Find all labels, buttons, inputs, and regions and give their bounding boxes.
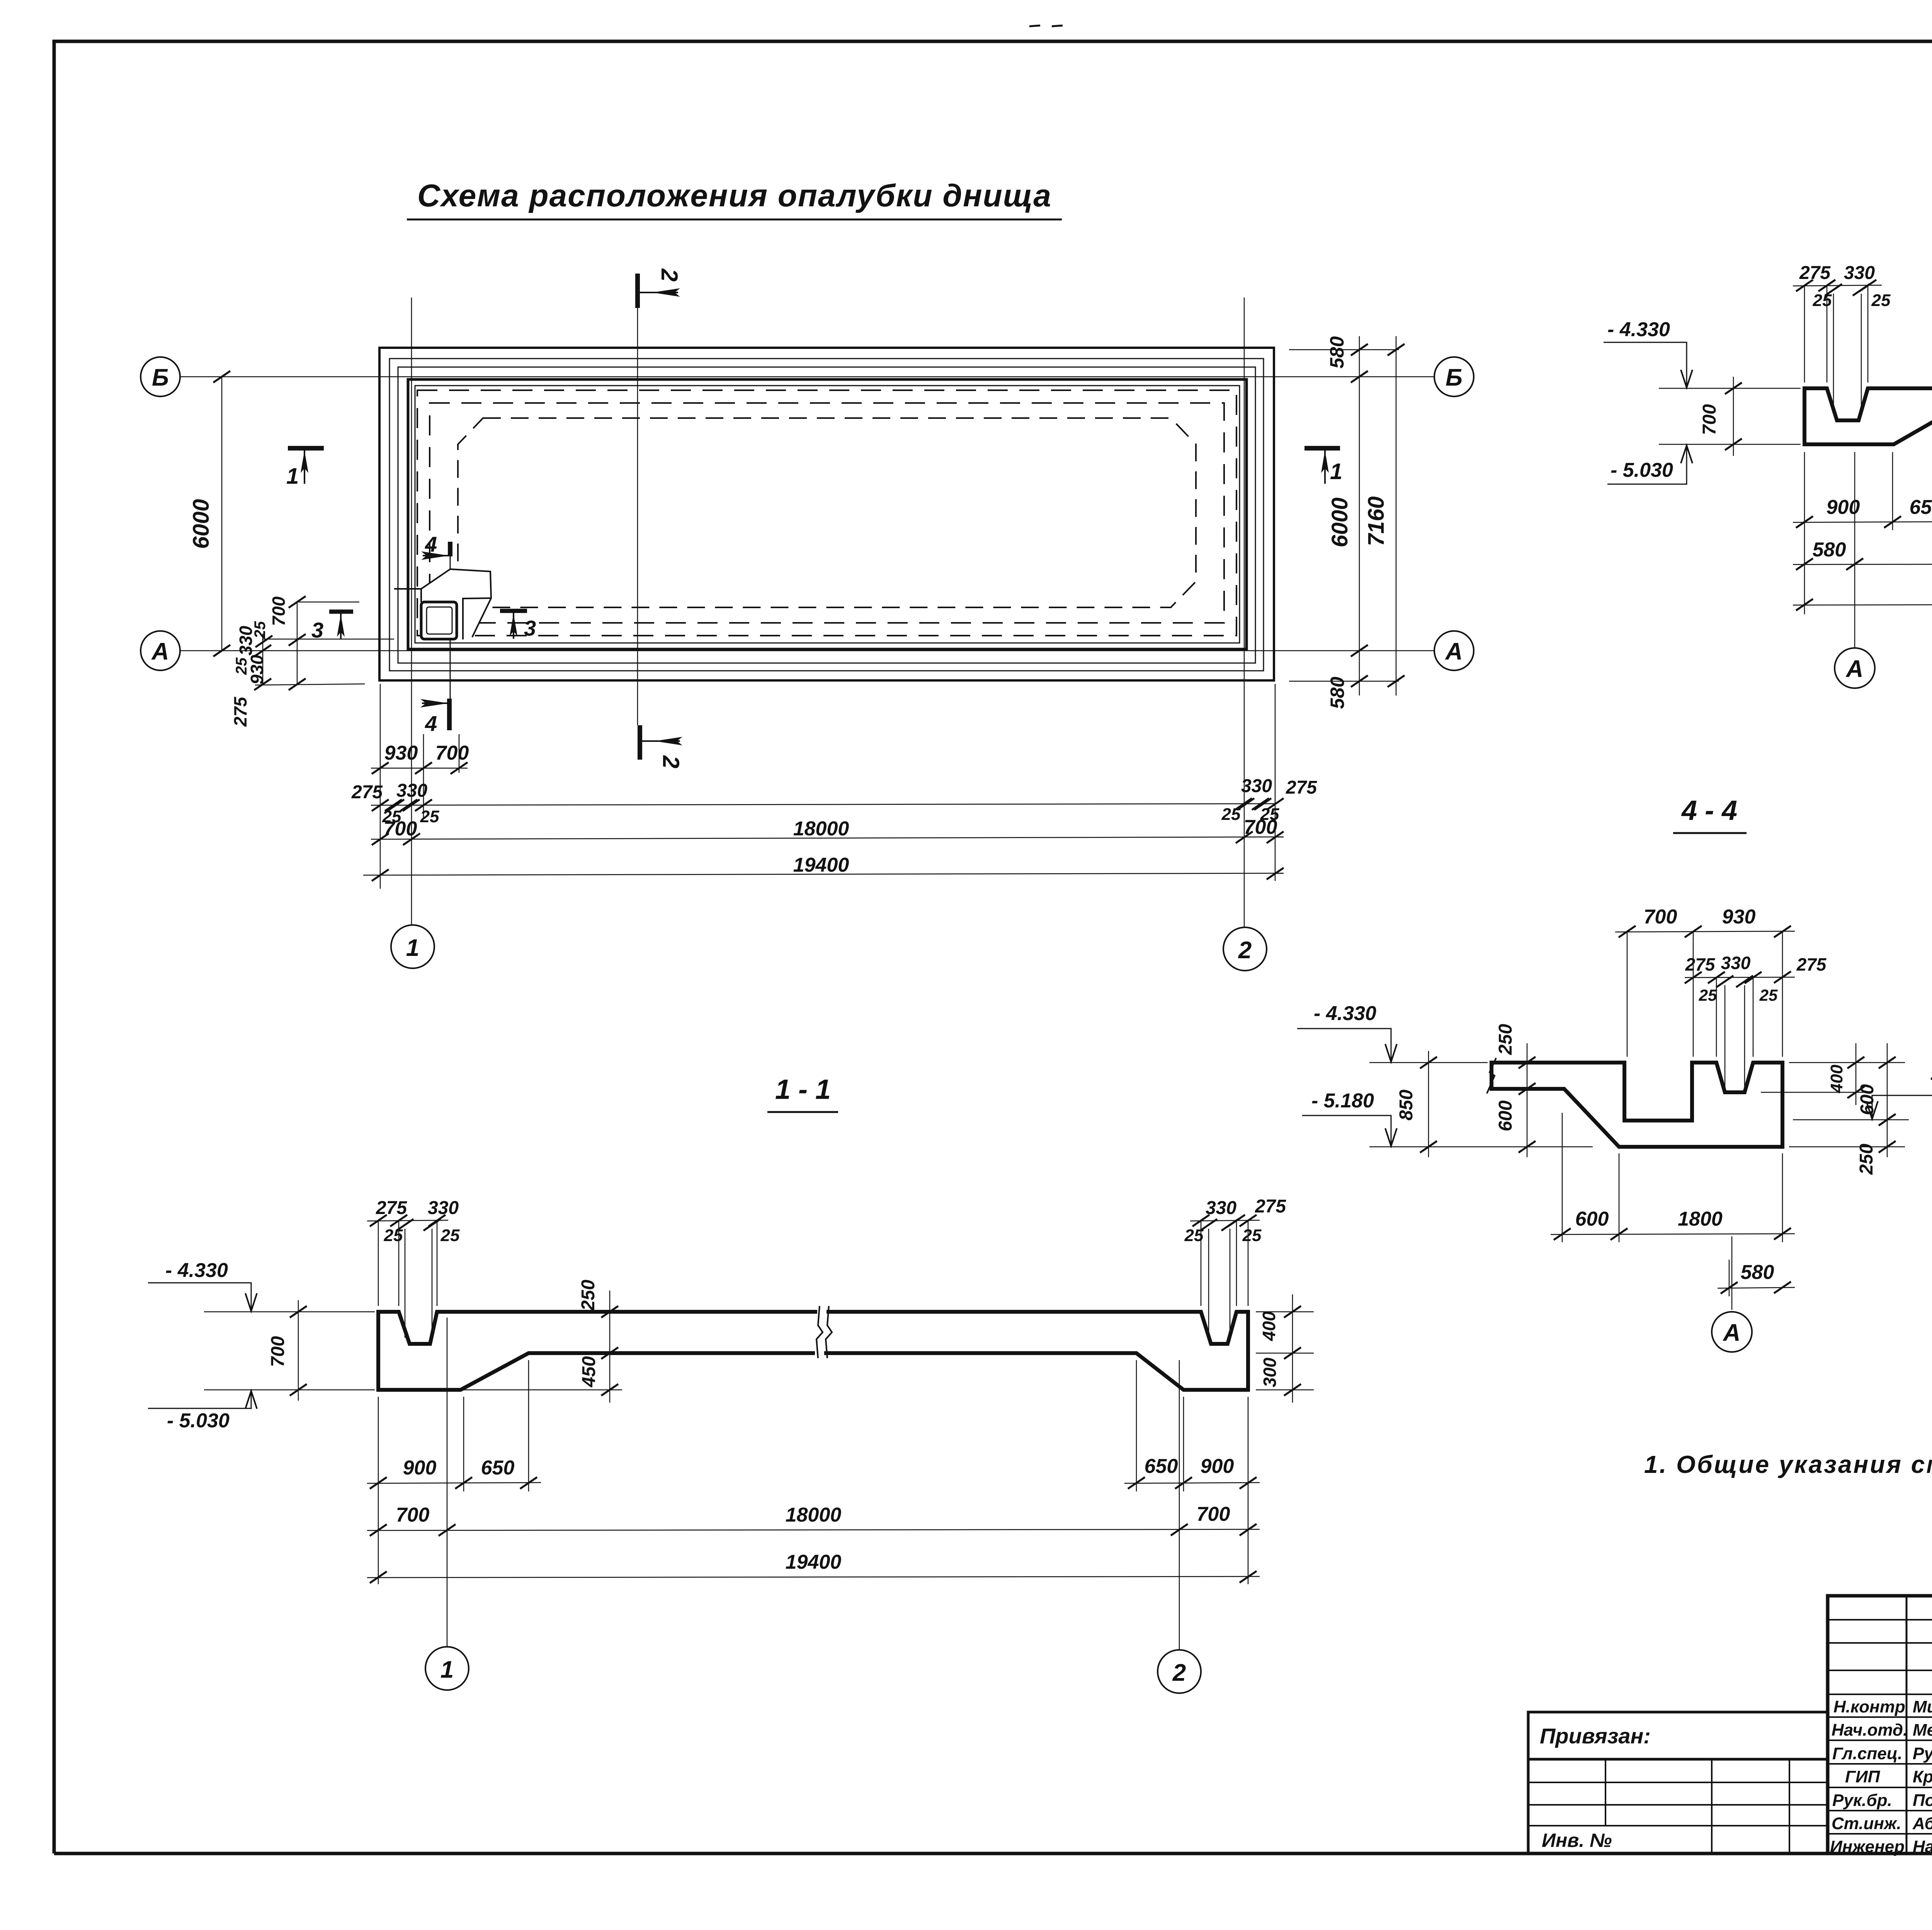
- svg-text:300: 300: [1260, 1357, 1280, 1387]
- svg-text:А: А: [1845, 656, 1864, 682]
- svg-text:4 - 4: 4 - 4: [1681, 795, 1737, 826]
- svg-text:3: 3: [524, 616, 536, 640]
- svg-text:Инв. №: Инв. №: [1542, 1830, 1612, 1851]
- svg-text:3: 3: [311, 618, 323, 642]
- svg-text:Привязан:: Привязан:: [1540, 1724, 1651, 1748]
- left dim 6000 line: [213, 371, 230, 656]
- axis vertical line 2: [1244, 298, 1245, 927]
- section 2 cut line (vertical through plan): [637, 307, 638, 725]
- title block outer border: [1828, 1596, 1932, 1853]
- 4-4 left extension lines + dim 850: [1369, 1051, 1593, 1157]
- svg-text:900: 900: [1201, 1455, 1234, 1478]
- 4-4 level mark -5.180: [1302, 1090, 1397, 1146]
- plan inner thin rectangle: [415, 386, 1240, 643]
- axis circle Б right: [1434, 357, 1474, 396]
- signature table texts: [1830, 1697, 1932, 1856]
- svg-text:25: 25: [1184, 1226, 1204, 1245]
- left wall chain dim line and ticks: [254, 596, 394, 690]
- axis circle 1 (plan): [391, 925, 434, 968]
- svg-text:900: 900: [403, 1457, 437, 1479]
- svg-text:4: 4: [425, 532, 437, 556]
- 1-1 right side dims 400/300: [1256, 1294, 1314, 1403]
- svg-text:- 4.330: - 4.330: [165, 1259, 228, 1282]
- svg-text:Б: Б: [1446, 364, 1463, 391]
- 4-4 top dim row 700/930: [1615, 926, 1795, 1057]
- svg-text:1: 1: [406, 935, 419, 961]
- svg-text:1800: 1800: [1678, 1208, 1723, 1230]
- section mark 4 bottom: bar: [447, 699, 452, 730]
- 2-2 level mark -5.030: [1607, 446, 1692, 484]
- 2-2 level mark -4.330: [1604, 318, 1692, 388]
- svg-text:А: А: [1445, 638, 1463, 665]
- svg-text:2: 2: [1238, 937, 1252, 964]
- section mark 3 right: arrow: [510, 612, 517, 639]
- svg-text:930: 930: [247, 655, 267, 684]
- svg-text:275: 275: [376, 1198, 407, 1218]
- svg-text:650: 650: [1910, 496, 1932, 519]
- svg-text:1: 1: [1330, 459, 1342, 484]
- section mark 3 left: bar: [329, 610, 353, 614]
- section mark 4 bottom: arrow: [420, 699, 448, 707]
- section 4 cut line bottom: [450, 639, 451, 700]
- svg-text:450: 450: [579, 1356, 599, 1388]
- svg-text:275: 275: [1255, 1196, 1286, 1217]
- svg-text:Мешалкин: Мешалкин: [1913, 1721, 1932, 1740]
- svg-text:850: 850: [1396, 1090, 1417, 1121]
- 1-1 axis circle 1: [425, 1647, 469, 1690]
- title block signature table rows: [1828, 1620, 1932, 1834]
- svg-text:275: 275: [1796, 954, 1827, 974]
- section 1-1 break symbol: [816, 1306, 832, 1358]
- 4-4 dim row 580: [1718, 1260, 1795, 1296]
- svg-text:580: 580: [1741, 1261, 1774, 1284]
- svg-text:580: 580: [1326, 336, 1348, 369]
- section mark 1 right: bar: [1304, 446, 1340, 451]
- section mark 4 top: bar: [448, 542, 452, 556]
- 2-2 dim row 7160: [1793, 598, 1932, 610]
- bottom row D dim line 19400: [363, 868, 1284, 881]
- bottom row C dim line 700/18000/700: [371, 832, 1284, 845]
- 1-1 axis verticals: [447, 1318, 1179, 1649]
- plan inner thick formwork rectangle: [408, 379, 1247, 649]
- 1-1 groove extension lines right: [1190, 1215, 1260, 1338]
- section 4-4 title: [1673, 795, 1747, 833]
- svg-text:19400: 19400: [793, 854, 849, 876]
- svg-text:ГИП: ГИП: [1845, 1767, 1881, 1786]
- section 4-4 break symbol left: [1487, 1058, 1496, 1093]
- svg-text:580: 580: [1813, 539, 1846, 561]
- 4-4 groove dim row 275/330/275: [1685, 971, 1795, 1088]
- svg-text:А: А: [151, 638, 169, 665]
- svg-text:1: 1: [440, 1656, 454, 1683]
- svg-text:330: 330: [1721, 953, 1751, 973]
- axis line Б horizontal: [180, 376, 1434, 377]
- svg-text:25: 25: [420, 807, 439, 826]
- section 1-1 title: [767, 1074, 838, 1112]
- svg-text:- 5.030: - 5.030: [167, 1410, 230, 1432]
- axis circle 2 (plan): [1223, 927, 1267, 971]
- svg-text:Нач.отд.: Нач.отд.: [1832, 1721, 1908, 1740]
- 4-4 level mark -4.930: [1793, 1066, 1932, 1120]
- bottom row B left: 275 330 + 25 25: [371, 799, 1275, 811]
- svg-text:Рук.бр.: Рук.бр.: [1832, 1791, 1892, 1810]
- svg-text:580: 580: [1327, 677, 1348, 709]
- svg-text:1. Общие указания см лист: 1. Общие указания см листы 1 ÷ 7.: [1644, 1450, 1932, 1478]
- svg-text:650: 650: [1145, 1455, 1178, 1478]
- svg-text:Крюков: Крюков: [1913, 1767, 1932, 1786]
- section 4-4 profile outline: [1492, 1063, 1782, 1147]
- section 1-1 profile outline left part: [378, 1312, 817, 1390]
- svg-text:18000: 18000: [793, 818, 849, 840]
- svg-text:930: 930: [1722, 906, 1756, 928]
- 2-2 groove extension lines left: [1793, 280, 1882, 413]
- main title: Схема расположения опалубки днища: [407, 26, 1063, 219]
- svg-text:25: 25: [1699, 986, 1717, 1004]
- svg-text:700: 700: [435, 742, 469, 764]
- section mark 3 left: arrow: [337, 613, 345, 639]
- svg-text:275: 275: [1799, 263, 1831, 283]
- svg-text:25: 25: [1221, 805, 1241, 824]
- svg-text:Н.контр: Н.контр: [1833, 1697, 1905, 1716]
- svg-text:- 5.030: - 5.030: [1611, 459, 1673, 481]
- section mark 2 bottom: bar: [638, 725, 642, 760]
- svg-text:2: 2: [656, 268, 682, 281]
- svg-text:6000: 6000: [1327, 497, 1352, 547]
- 1-1 dim row 19400: [367, 1571, 1260, 1583]
- svg-text:700: 700: [396, 1504, 430, 1526]
- 1-1 bottom dim row 900/650 left: [367, 1360, 541, 1584]
- svg-text:250: 250: [1495, 1024, 1516, 1055]
- bottom row B right ticks: [1235, 684, 1284, 881]
- svg-text:7160: 7160: [1364, 496, 1389, 546]
- 1-1 left extension lines + dim 700: [204, 1300, 375, 1401]
- section mark 1 left: bar: [288, 446, 324, 451]
- svg-text:650: 650: [481, 1457, 515, 1479]
- svg-text:330: 330: [396, 781, 427, 801]
- 2-2 bottom dim row 900/650 left: [1793, 419, 1932, 614]
- dashed rectangle B: [430, 403, 1224, 623]
- svg-text:Схема расположения опалубки: Схема расположения опалубки днища: [417, 178, 1051, 213]
- svg-text:330: 330: [236, 626, 256, 655]
- 1-1 mid dims 250/450: [461, 1291, 622, 1403]
- pit plan: outer square: [421, 602, 457, 639]
- svg-text:600: 600: [1495, 1100, 1516, 1131]
- svg-text:330: 330: [428, 1198, 459, 1218]
- svg-text:4: 4: [425, 711, 437, 736]
- plan wall line 2: [389, 359, 1264, 671]
- svg-text:700: 700: [1244, 816, 1277, 838]
- axis circle Б left: [141, 357, 180, 396]
- svg-text:1: 1: [286, 464, 299, 489]
- pit plan: inner square: [427, 607, 452, 634]
- svg-text:400: 400: [1259, 1311, 1279, 1341]
- 2-2 dim row 580/6000/580: [1793, 558, 1932, 570]
- right dim chain: 580 top: [1289, 336, 1405, 695]
- section 4 cut line top: [450, 555, 451, 569]
- 4-4 axis vertical: [1731, 1236, 1733, 1310]
- svg-text:Б: Б: [152, 364, 169, 391]
- 1-1 level mark -4.330: [148, 1259, 257, 1311]
- svg-text:700: 700: [1197, 1503, 1230, 1525]
- svg-text:600: 600: [1857, 1084, 1878, 1115]
- section 2-2 profile outline: [1804, 388, 1932, 444]
- 4-4 level mark -4.330: [1297, 1002, 1397, 1062]
- 2-2 axis verticals: [1855, 452, 1932, 648]
- section mark 2 top: arrow line: [638, 288, 680, 297]
- svg-text:25: 25: [440, 1226, 460, 1245]
- 4-4 axis circle А: [1712, 1312, 1752, 1352]
- svg-text:18000: 18000: [786, 1504, 842, 1526]
- svg-text:700: 700: [1644, 906, 1677, 928]
- svg-text:Инженер: Инженер: [1830, 1837, 1905, 1856]
- plan wall line 3: [398, 367, 1255, 663]
- svg-text:700: 700: [268, 1336, 288, 1367]
- svg-text:Гл.спец.: Гл.спец.: [1832, 1744, 1902, 1763]
- 1-1 axis circle 2: [1158, 1650, 1201, 1693]
- 2-2 axis circle А: [1835, 648, 1875, 688]
- svg-text:- 4.330: - 4.330: [1607, 318, 1670, 341]
- svg-text:- 4.330: - 4.330: [1314, 1002, 1376, 1025]
- svg-text:275: 275: [1286, 777, 1317, 798]
- svg-text:А: А: [1723, 1320, 1741, 1346]
- svg-text:25: 25: [384, 1226, 403, 1245]
- section mark 1 left: arrow: [301, 449, 308, 484]
- svg-text:275: 275: [351, 782, 383, 803]
- section mark 2 top: bar: [635, 274, 640, 308]
- section mark 3 right: bar: [500, 609, 527, 613]
- svg-text:700: 700: [384, 818, 417, 840]
- section 1-1 profile outline right part: [824, 1312, 1248, 1390]
- axis circle А left: [141, 631, 180, 670]
- title block signature table columns: [1906, 1596, 1932, 1853]
- 1-1 level mark -5.030: [148, 1391, 257, 1432]
- svg-text:2: 2: [658, 755, 684, 768]
- axis circle А right: [1434, 631, 1474, 670]
- svg-text:400: 400: [1827, 1064, 1846, 1093]
- axis line А horizontal: [180, 650, 1434, 651]
- svg-text:Попов: Попов: [1913, 1791, 1932, 1810]
- svg-text:250: 250: [1856, 1144, 1877, 1175]
- section mark 4 top: arrow: [421, 551, 449, 560]
- 4-4 dims 250/600 left: [1519, 1043, 1536, 1157]
- svg-text:930: 930: [384, 742, 418, 764]
- 4-4 right dims 400/600/250: [1761, 1043, 1905, 1157]
- svg-text:600: 600: [1575, 1208, 1609, 1230]
- bottom row A dim line 930/700: [371, 684, 468, 889]
- svg-text:Ст.инж.: Ст.инж.: [1832, 1814, 1901, 1833]
- dashed rectangle A (formwork bottom edge): [417, 390, 1236, 636]
- Привязан box: [1528, 1712, 1828, 1853]
- svg-text:- 4.930: - 4.930: [1930, 1066, 1932, 1088]
- 1-1 bottom dim row 650/900 right: [1124, 1360, 1260, 1584]
- svg-text:Руссин: Руссин: [1913, 1744, 1932, 1763]
- 4-4 bottom dim row 600/1800: [1551, 1113, 1795, 1242]
- svg-text:700: 700: [269, 596, 289, 626]
- svg-text:275: 275: [230, 696, 250, 727]
- svg-text:- 5.180: - 5.180: [1311, 1090, 1374, 1112]
- section mark 1 right: arrow: [1321, 449, 1329, 484]
- svg-text:250: 250: [578, 1280, 599, 1311]
- svg-text:25: 25: [1871, 291, 1891, 310]
- pit plan: raised box outline: [421, 569, 491, 637]
- svg-text:25: 25: [1813, 291, 1832, 310]
- svg-text:6000: 6000: [189, 499, 214, 549]
- svg-text:700: 700: [1699, 404, 1720, 435]
- svg-text:275: 275: [1685, 954, 1716, 974]
- svg-text:1 - 1: 1 - 1: [775, 1074, 831, 1105]
- svg-text:Абдулина: Абдулина: [1912, 1814, 1932, 1833]
- svg-text:25: 25: [1759, 986, 1778, 1004]
- svg-text:330: 330: [1206, 1198, 1236, 1218]
- svg-text:330: 330: [1844, 263, 1875, 283]
- svg-text:2: 2: [1172, 1660, 1186, 1686]
- 1-1 groove extension lines left: [367, 1215, 448, 1338]
- section mark 2 bottom: arrow line: [641, 737, 682, 745]
- svg-text:25: 25: [1242, 1226, 1262, 1245]
- svg-text:Мильцер: Мильцер: [1913, 1697, 1932, 1716]
- 2-2 left extension lines: [1659, 377, 1801, 456]
- svg-text:330: 330: [1241, 776, 1272, 796]
- dashed octagon C (slope toe line): [458, 418, 1196, 607]
- axis vertical line 1: [411, 298, 412, 925]
- svg-text:19400: 19400: [786, 1551, 842, 1573]
- 1-1 dim row 700/18000/700: [367, 1524, 1260, 1536]
- svg-text:Нарунец: Нарунец: [1913, 1837, 1932, 1856]
- plan outer formwork rectangle: [379, 348, 1274, 680]
